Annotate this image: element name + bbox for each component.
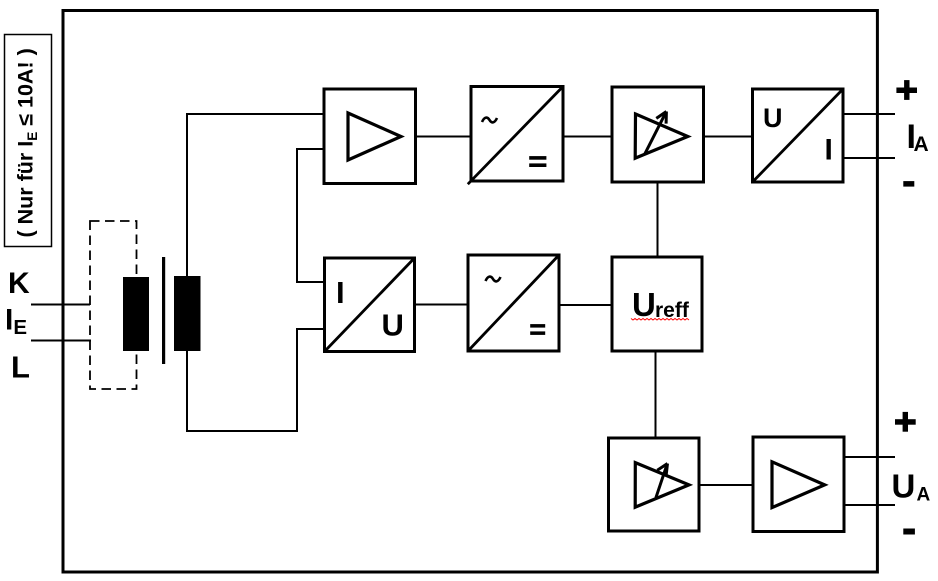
wire U2 output minus to terminal — [843, 157, 895, 159]
dashed external primary link — [90, 221, 137, 389]
wire Ureff to controlled amplifier A3 — [655, 351, 657, 438]
amplifier A1 — [324, 89, 416, 184]
wire I/U converter lower input to secondary bottom — [187, 329, 325, 431]
svg-text:K: K — [8, 267, 30, 300]
wire U4 output to Ureff block — [559, 304, 612, 306]
wire A4 output plus to terminal — [844, 456, 895, 458]
note box (Nur fuer IE <= 10A!) — [5, 35, 52, 247]
output IA plus sign — [896, 80, 917, 100]
wire K input stub — [31, 304, 90, 306]
controlled amplifier A3 — [609, 438, 700, 531]
output UA plus sign — [895, 412, 916, 432]
svg-text:I: I — [825, 134, 833, 167]
wire A4 output minus to terminal — [844, 504, 895, 506]
svg-text:U: U — [632, 286, 656, 323]
wire A1 output to AC/DC converter U1 — [415, 136, 471, 138]
wire amplifier A1 lower input to I/U converter upper input — [297, 149, 325, 282]
svg-text:I: I — [336, 275, 345, 310]
wire L input stub — [31, 340, 91, 342]
wire A2 output to U/I converter U2 — [703, 136, 753, 138]
U/I converter U2 — [753, 89, 844, 182]
wire A2 reference input from Ureff — [657, 183, 659, 257]
output UA minus sign — [903, 529, 915, 535]
controlled amplifier A2 — [612, 87, 704, 182]
svg-text:reff: reff — [655, 299, 690, 322]
AC/DC converter U1 — [468, 87, 563, 185]
transformer T1 secondary winding — [174, 276, 201, 351]
I/U converter U3 — [325, 258, 415, 352]
output IA minus sign — [903, 181, 914, 187]
svg-text:U: U — [892, 468, 916, 505]
wire U1 output to controlled amplifier A2 — [563, 136, 612, 138]
wire U3 output to AC/DC converter U4 — [415, 304, 469, 306]
output amplifier A4 — [753, 437, 844, 532]
AC/DC converter U4 — [468, 255, 559, 351]
transformer T1 primary winding — [123, 277, 149, 351]
wire secondary top to amplifier A1 input — [187, 114, 324, 276]
transformer T1 core — [162, 257, 165, 364]
svg-text:A: A — [917, 485, 931, 506]
svg-text:U: U — [763, 103, 783, 133]
svg-text:U: U — [382, 308, 404, 343]
svg-text:IE: IE — [5, 304, 27, 340]
Ureff block — [612, 257, 702, 351]
svg-text:( Nur für IE ≤ 10A! ): ( Nur für IE ≤ 10A! ) — [14, 48, 41, 237]
svg-text:L: L — [11, 350, 30, 385]
wire A3 output to output amplifier A4 — [699, 484, 753, 486]
wire U2 output plus to terminal — [843, 113, 895, 115]
svg-text:A: A — [914, 133, 929, 156]
